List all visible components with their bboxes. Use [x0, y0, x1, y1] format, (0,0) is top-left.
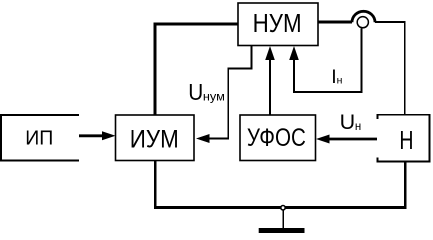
svg-text:ИП: ИП	[25, 127, 53, 149]
svg-text:U: U	[340, 110, 356, 134]
svg-text:ИУМ: ИУМ	[130, 126, 179, 154]
svg-text:н: н	[337, 74, 343, 86]
svg-text:U: U	[188, 79, 203, 105]
svg-text:Н: Н	[399, 127, 413, 155]
svg-text:нум: нум	[203, 90, 225, 104]
svg-text:н: н	[355, 121, 361, 133]
svg-text:НУМ: НУМ	[253, 8, 302, 38]
svg-text:УФОС: УФОС	[247, 124, 306, 152]
